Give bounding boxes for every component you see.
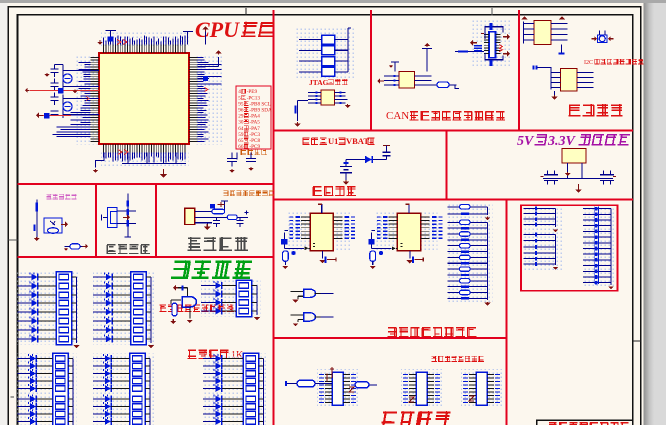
- power arrow gate G1: [295, 300, 297, 302]
- LED group G2 halo: [93, 272, 155, 345]
- wire U-can top: [422, 49, 432, 72]
- left page margin: [0, 3, 8, 425]
- J-exp bus entries: [474, 46, 482, 51]
- U-mem1 right pins: [551, 24, 568, 41]
- ic U-jtag left pins: [308, 93, 321, 104]
- svg-text:95: 95: [238, 101, 244, 107]
- power arrow reset: [206, 224, 208, 226]
- power arrow R-midB: [372, 266, 374, 268]
- reset wires: [195, 201, 228, 223]
- expansion connector J-exp body: [489, 32, 496, 58]
- CPU U1 halo: [76, 55, 98, 145]
- capacitor C-rst2: [236, 217, 243, 227]
- U-mem1 left pins: [524, 22, 535, 44]
- interface connector J3 body: [476, 372, 487, 405]
- capacitor C-rst1: [213, 217, 220, 227]
- interface connector J2 halo: [401, 369, 442, 408]
- wire comb CPU left: [53, 62, 91, 136]
- U-mem2 right pins: [577, 73, 594, 88]
- power arrow crystal Y2 left: [28, 90, 30, 92]
- wires JTAG right bus: [335, 28, 352, 72]
- wire comb CPU right: [198, 58, 222, 142]
- border zone tick top: [245, 8, 247, 16]
- LED group G3 rows: [201, 285, 216, 287]
- CPU left pins: [91, 58, 100, 142]
- CPU U1 body: [99, 53, 189, 144]
- label reset chip timing note: [223, 190, 228, 195]
- LED group G1 resistor network box: [56, 272, 72, 345]
- bundle left sub2 rows: [524, 234, 556, 236]
- red wire Y2: [42, 115, 71, 117]
- power arrow mini gate top: [176, 287, 178, 289]
- ic U-mem1: [534, 21, 551, 45]
- LED group G2 rows: [93, 276, 106, 278]
- red marker near left pins: [86, 97, 89, 101]
- power rail above CPU: [106, 31, 117, 45]
- title block frame: [536, 419, 633, 421]
- U-midB colon mark: [400, 244, 402, 247]
- rail end ticks: [541, 176, 617, 178]
- LED group G1 halo: [18, 272, 81, 345]
- power arrow R-midA: [284, 266, 286, 268]
- power arrow U-mem1 right: [561, 18, 563, 20]
- wire stub top right: [183, 32, 193, 45]
- temp supply circuit wire: [36, 200, 38, 238]
- resistor R-minigate: [172, 303, 177, 316]
- arrow switch: [123, 217, 127, 219]
- section divider V4 clock/power: [445, 131, 447, 200]
- power arrow U-midA bottom: [322, 260, 324, 261]
- power arrow U-jtag ground: [297, 122, 299, 124]
- power arrow mini gate bottom: [189, 320, 191, 322]
- U-midB left pins: [388, 217, 397, 238]
- label user program memory: [569, 105, 581, 116]
- LED group G6 resistor network box: [243, 353, 259, 425]
- unused pin list box: [236, 86, 271, 149]
- LED group G4 rows: [18, 358, 31, 360]
- oscillator arrows: [591, 38, 594, 40]
- mini ladder resistors: [460, 205, 471, 209]
- ladder halo: [447, 202, 493, 302]
- label indicator LED zone: [171, 260, 190, 277]
- svg-text:-PC13: -PC13: [247, 95, 261, 101]
- main ladder resistors: [460, 220, 471, 224]
- bundle left sub2 bus: [555, 235, 557, 266]
- wire comb CPU top: [104, 36, 186, 45]
- no-ERC mark right: [205, 88, 209, 92]
- svg-text:-PB9 SDA: -PB9 SDA: [249, 108, 272, 114]
- power arrow U-can top: [426, 46, 428, 47]
- red wire Y1: [30, 90, 99, 92]
- LED group G5 halo: [93, 354, 154, 425]
- power arrow temp cell: [36, 236, 38, 239]
- power arrow gate G2: [295, 323, 297, 325]
- svg-text:-PE9: -PE9: [247, 89, 258, 95]
- resistor pill CAN: [437, 82, 449, 88]
- svg-text:CPU: CPU: [195, 17, 240, 42]
- svg-text:96: 96: [238, 108, 244, 114]
- bundle left sub1 rows: [524, 208, 556, 210]
- LED group G4 bus wire: [72, 359, 74, 425]
- power rail 3.3V: [543, 178, 613, 180]
- battery BT1: [340, 160, 352, 181]
- capacitor C-reg3: [600, 171, 607, 185]
- power arrow rail: [578, 184, 580, 189]
- section divider H2: [18, 183, 274, 185]
- power arrow U-mem1 left: [524, 18, 526, 20]
- wire U-jtag ground: [298, 101, 309, 122]
- svg-text:66: 66: [238, 144, 244, 150]
- power arrow U-jtag right: [347, 104, 349, 105]
- section divider V2 JTAG/CAN: [370, 10, 372, 131]
- border zone tick left 2: [11, 396, 15, 398]
- section divider H1: [274, 129, 634, 131]
- JTAG halo: [295, 28, 355, 80]
- capacitor below CPU a: [227, 153, 237, 167]
- LED group G5 bus wire: [149, 359, 151, 425]
- svg-text:-PA7: -PA7: [249, 126, 260, 132]
- wire comb CPU bottom: [104, 153, 186, 163]
- ic U-jtag right pins: [335, 93, 348, 104]
- power arrows R-temp: [65, 247, 67, 249]
- main ladder rows: [448, 222, 488, 300]
- label output control pin circuit: [388, 327, 398, 337]
- interface connector J3 halo: [461, 369, 502, 408]
- label near U1 VBAT pin: [302, 138, 309, 145]
- resistor R-rst1: [212, 209, 225, 214]
- J-exp top bracket: [485, 27, 503, 39]
- no-ERC marks top: [117, 40, 127, 45]
- power arrow battery: [345, 180, 347, 182]
- node square U-midB left: [369, 239, 375, 244]
- svg-text:4: 4: [238, 89, 241, 95]
- LED group G4 resistor network box: [53, 353, 69, 425]
- title block text: [549, 422, 558, 425]
- U-midB right pins: [421, 217, 430, 238]
- ic U-midA: [310, 213, 333, 251]
- LED group G2 bus wire: [150, 277, 152, 343]
- ic U-midB: [397, 213, 420, 251]
- LED group G6 halo: [203, 354, 268, 425]
- gate G1: [291, 291, 304, 298]
- power arrow crystal Y1: [46, 73, 48, 74]
- ic U-can left pins: [384, 76, 399, 85]
- power arrow mini gate left: [172, 319, 174, 321]
- reset ic U-rst: [185, 208, 195, 224]
- LED group G2 resistor network box: [131, 272, 147, 345]
- CPU right pins: [189, 58, 198, 142]
- section divider V3 CAN/memory: [518, 10, 520, 131]
- LED group G6 rows: [203, 358, 216, 360]
- J-exp bottom bracket: [485, 53, 503, 60]
- label resistor pack change to 1K: [188, 350, 197, 359]
- LED group G3 halo: [201, 281, 261, 318]
- U-midA left pins: [301, 217, 310, 238]
- svg-text:CAN: CAN: [386, 110, 409, 122]
- capacitor small U-midA: [293, 251, 295, 255]
- arrow Q-temp right: [61, 224, 65, 226]
- switch contacts: [117, 211, 136, 224]
- capacitor U-midB bottom: [412, 257, 414, 264]
- label temperature supply note: [46, 194, 51, 199]
- J-exp arrow right top: [503, 36, 507, 38]
- LED group G5 rows: [93, 358, 105, 360]
- svg-text:I2C: I2C: [584, 60, 593, 66]
- power arrow U-mem2: [554, 95, 556, 97]
- capacitor below CPU b: [246, 153, 256, 162]
- power arrow U-midB bottom: [409, 260, 411, 261]
- transistor Q-temp: [44, 218, 62, 233]
- LED group G1 rows: [18, 276, 32, 278]
- LED group G1 bus wire: [76, 277, 78, 343]
- label reset circuit: [188, 237, 201, 250]
- label interface circuit adjust note: [431, 356, 437, 362]
- wire below CPU left: [96, 153, 105, 168]
- interface connector J1 pins: [319, 374, 324, 376]
- resistor R-rst2: [227, 215, 237, 220]
- power arrow above CPU: [99, 40, 101, 42]
- node blue tick Y1: [58, 88, 64, 94]
- label serial port pull-up note: [159, 304, 166, 311]
- resistor R-jtag2: [322, 46, 335, 55]
- mini ladder rows: [448, 207, 488, 215]
- svg-text:65: 65: [238, 138, 244, 144]
- section divider control cells b: [155, 184, 157, 257]
- interface connector J2 pins: [403, 374, 408, 376]
- ic U-mem2: [561, 69, 578, 92]
- section divider H3: [274, 198, 634, 200]
- capacitor C-reg2: [551, 171, 558, 185]
- diode D-vbat: [365, 156, 372, 163]
- svg-text:29: 29: [238, 114, 244, 120]
- ic U-midB halo: [375, 210, 437, 250]
- LED group G3 power arrow: [256, 317, 258, 318]
- wire battery top: [346, 159, 387, 161]
- U-midB bottom pin: [409, 251, 411, 259]
- LED group G3 bus wire: [256, 286, 258, 316]
- LED group G2 power arrow: [150, 345, 152, 346]
- border zone tick left: [8, 239, 17, 241]
- svg-text:U1: U1: [328, 136, 338, 146]
- resistor R-jtag3: [322, 57, 335, 66]
- capacitor U-mem2: [534, 66, 537, 70]
- mini gate wire top: [178, 288, 187, 298]
- capacitor U-midA bottom: [325, 257, 327, 264]
- oscillator X-mem: [598, 35, 608, 43]
- svg-text:3.3V: 3.3V: [547, 134, 577, 149]
- section divider H5: [274, 337, 507, 339]
- window top bar: [0, 0, 666, 3]
- label unused pins: [240, 149, 246, 155]
- node right of CPU a: [198, 57, 219, 67]
- bundle right rails: [594, 207, 598, 285]
- crystal circuit Y1: [51, 65, 100, 93]
- power arrow main ladder: [487, 301, 489, 304]
- capacitor C-reg1: [544, 171, 551, 185]
- junction U-can: [391, 62, 399, 72]
- power arrow below CPU center: [163, 169, 165, 174]
- expansion connector J-exp halo: [470, 20, 512, 68]
- interface connector J1 halo: [317, 369, 358, 408]
- ic U-jtag: [321, 90, 335, 105]
- LED group G1 power arrow: [76, 345, 78, 346]
- regulator U-reg: [562, 149, 586, 164]
- U-midB top pin: [408, 204, 410, 213]
- resistor R-jtag4: [322, 67, 335, 76]
- svg-text:59: 59: [238, 132, 244, 138]
- U-midA right pins: [333, 217, 342, 238]
- right red frame: [521, 205, 618, 290]
- CPU bottom pins: [104, 144, 186, 153]
- section divider V5 output/right: [505, 200, 507, 425]
- resistor R-midB: [370, 251, 376, 261]
- section divider H4: [18, 256, 274, 258]
- capacitor small U-midB: [380, 251, 382, 255]
- LED group G3 resistor network box: [236, 280, 252, 317]
- reset right end: [244, 211, 248, 215]
- capacitor C-reg4: [607, 171, 614, 185]
- capacitor C-vbat: [383, 149, 391, 160]
- J-exp arrow left: [473, 42, 477, 44]
- J3 mark: [469, 396, 474, 401]
- mini gate bottom wire: [189, 307, 191, 318]
- J-exp top-left tick: [481, 33, 484, 35]
- resistor R-midA: [283, 251, 289, 261]
- border zone tick right: [633, 340, 641, 342]
- J-exp arrow right bottom: [503, 53, 507, 55]
- ground rail below CPU: [122, 153, 186, 164]
- svg-text:5: 5: [238, 95, 241, 101]
- gate G2: [291, 315, 304, 322]
- reset tick cross: [217, 202, 224, 207]
- ic U-midA halo: [288, 210, 350, 250]
- power arrow below CPU left: [95, 168, 97, 171]
- power arrow near Y2: [39, 115, 43, 117]
- interface connector J3 pins: [463, 374, 468, 376]
- CPU top pins: [104, 45, 186, 54]
- resistor pill J1 left: [297, 380, 315, 387]
- bundle right halo: [583, 206, 615, 286]
- U-midA bottom pin: [322, 251, 324, 259]
- wire below CPU right: [236, 153, 238, 160]
- node square reset: [210, 204, 215, 209]
- U-mem2 left pins: [537, 68, 561, 90]
- label control switch: [107, 245, 117, 254]
- power arrow mini ladder: [487, 216, 489, 219]
- resistor R-temp: [70, 244, 80, 249]
- wire regulator down-left: [567, 163, 569, 179]
- label interface circuit: [380, 411, 397, 425]
- wire to connector: [455, 51, 484, 53]
- control switch wire top: [127, 194, 129, 208]
- bundle right bus: [610, 209, 612, 285]
- LED group G4 halo: [18, 354, 78, 425]
- crystal circuit Y2: [51, 93, 100, 119]
- J-exp no-ERC marks: [499, 45, 503, 52]
- J1 right mark: [349, 387, 354, 392]
- wire regulator down-right: [581, 163, 583, 179]
- svg-text:5V: 5V: [517, 134, 535, 149]
- arrow into U-midB: [392, 246, 396, 250]
- J-exp right pins: [496, 34, 501, 53]
- section divider V1: [272, 10, 274, 425]
- bundle left sub1 bus: [555, 209, 557, 227]
- J1 top marks: [327, 367, 334, 382]
- wire U-mem1 down: [561, 45, 563, 54]
- wires JTAG left: [299, 40, 322, 72]
- power arrow top right of CPU: [205, 30, 207, 32]
- resistor pill J1 right: [355, 382, 369, 388]
- mini gate body: [182, 297, 197, 308]
- ic U-can: [399, 72, 415, 89]
- arrow into U-midA: [305, 246, 309, 250]
- U-midA top pin: [321, 204, 323, 213]
- border zone tick top 2: [491, 8, 493, 16]
- svg-text:-PA5: -PA5: [249, 120, 260, 126]
- node square U-midA left: [281, 239, 287, 244]
- svg-text:-PB8 SCL: -PB8 SCL: [249, 101, 270, 107]
- resistor R-jtag1: [322, 35, 335, 44]
- section divider control cells a: [95, 184, 97, 257]
- node right of CPU b: [198, 78, 210, 80]
- switch S1 body: [108, 208, 118, 228]
- J-exp left pins: [484, 34, 489, 53]
- bundle right rows: [583, 208, 611, 210]
- J2 mark: [409, 397, 414, 402]
- svg-text:30: 30: [238, 120, 244, 126]
- LED group G6 bus wire: [263, 359, 265, 425]
- svg-text:-PC3: -PC3: [249, 132, 260, 138]
- svg-text:-PC9: -PC9: [249, 144, 260, 150]
- label clock supply: [313, 186, 323, 196]
- J1 left wire tick: [285, 381, 287, 386]
- U-midA colon mark: [313, 244, 315, 247]
- svg-text:64: 64: [238, 126, 244, 132]
- ic U-can right pins: [415, 76, 438, 85]
- interface connector J1 body: [332, 372, 343, 405]
- tick above C-vbat: [383, 145, 390, 147]
- svg-text:VBAT: VBAT: [346, 136, 369, 146]
- bundle left halo: [524, 206, 564, 270]
- interface connector J2 body: [416, 372, 427, 405]
- no-ERC marks bottom: [118, 150, 128, 155]
- control switch wire bottom: [125, 228, 132, 237]
- svg-text:-PC8: -PC8: [249, 138, 260, 144]
- power arrow U-can left: [380, 80, 384, 82]
- LED group G5 resistor network box: [130, 353, 146, 425]
- svg-text:-PA4: -PA4: [249, 114, 260, 120]
